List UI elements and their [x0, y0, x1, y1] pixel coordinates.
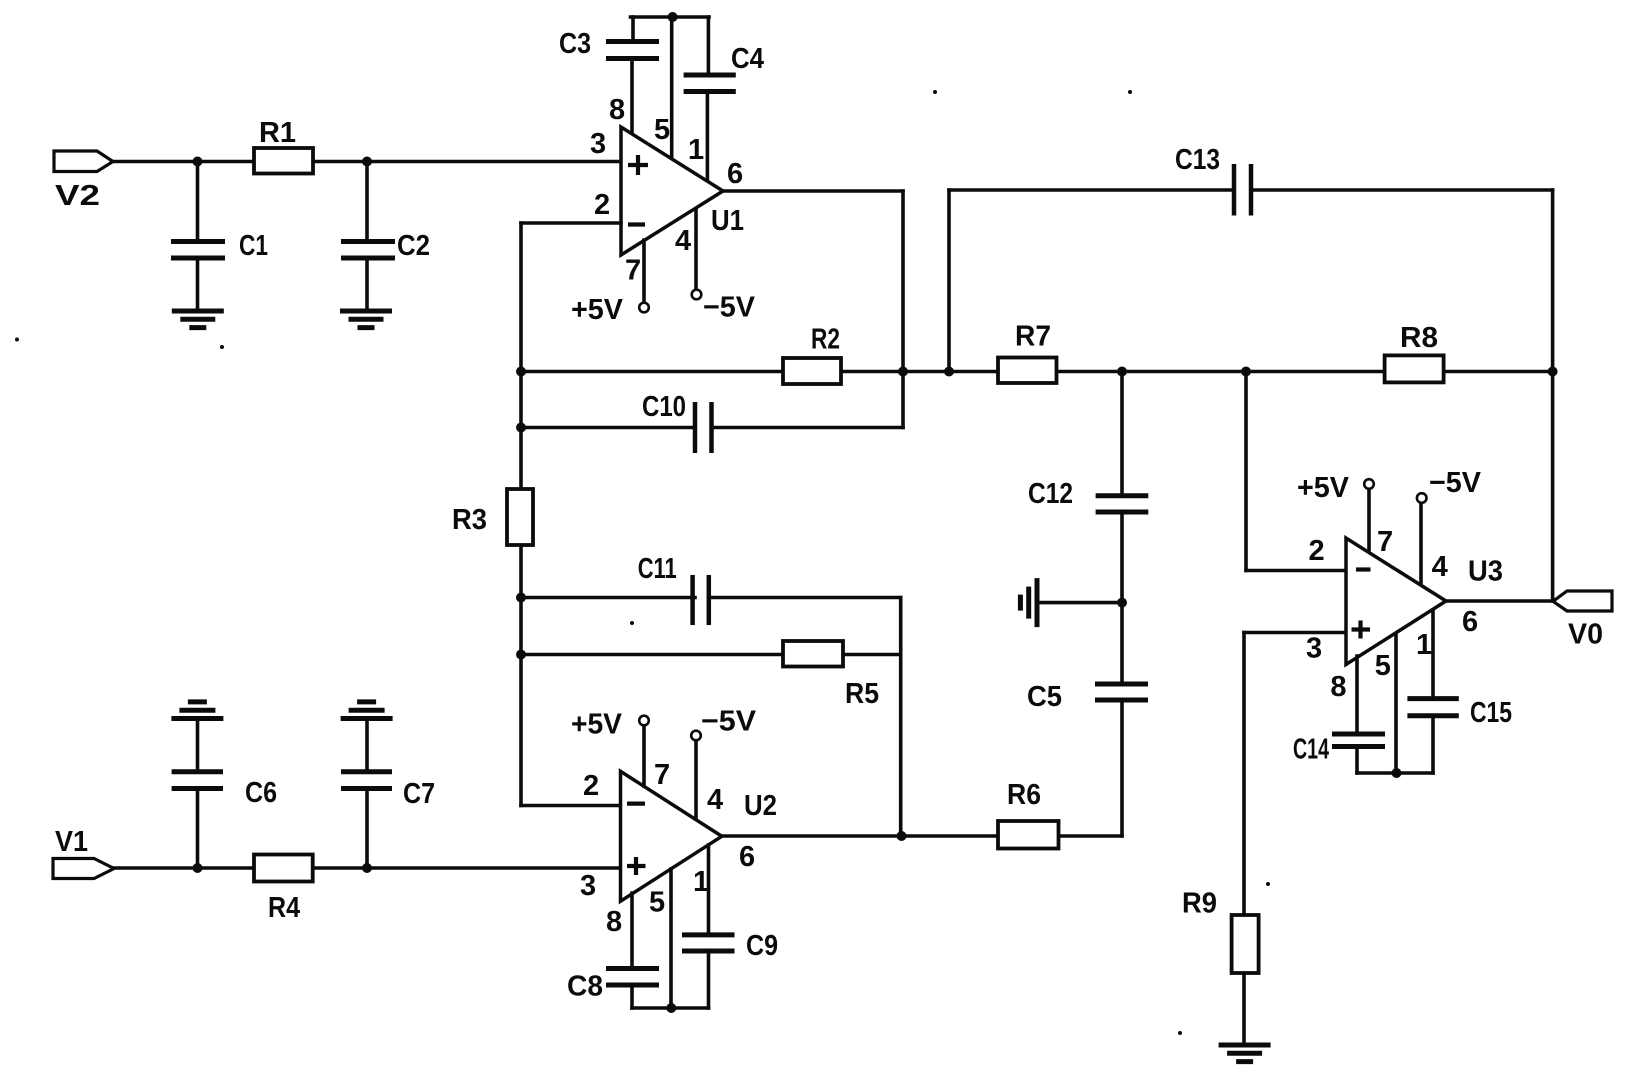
- wire U3 pin3 to R9: [1242, 633, 1246, 1043]
- wire left vertical bus: [519, 223, 523, 806]
- capacitor C9: [682, 935, 735, 951]
- wire C3 top link: [631, 17, 635, 40]
- svg-text:6: 6: [739, 841, 755, 873]
- op-amp U1: [621, 127, 723, 255]
- wire C8 down: [630, 985, 634, 1008]
- svg-text:U3: U3: [1468, 556, 1503, 588]
- svg-text:2: 2: [594, 189, 610, 221]
- wire U2 pin7 power: [642, 726, 646, 786]
- U3 plus symbol: [1352, 621, 1371, 639]
- svg-text:C15: C15: [1470, 697, 1512, 729]
- svg-text:4: 4: [707, 784, 723, 816]
- node V2-C1: [193, 157, 203, 167]
- wire U3 pin5 down: [1394, 634, 1398, 773]
- svg-text:C6: C6: [245, 777, 277, 809]
- node R4-C7: [362, 863, 372, 873]
- svg-text:2: 2: [583, 770, 599, 802]
- wire U1 pin2 input: [521, 221, 621, 225]
- capacitor C13: [1234, 164, 1251, 216]
- wire C5 to R6 corner: [1120, 700, 1124, 836]
- svg-text:−5V: −5V: [1429, 467, 1482, 499]
- node R8 right: [1548, 367, 1558, 377]
- wire C13 right: [1251, 188, 1553, 192]
- node bus-C11: [516, 593, 526, 603]
- svg-text:U1: U1: [711, 205, 744, 237]
- speck: [1128, 90, 1132, 94]
- node U2 bottom bus: [666, 1003, 676, 1013]
- capacitor C2: [341, 242, 395, 259]
- node R1-C2: [362, 157, 372, 167]
- wire R5 row: [521, 653, 901, 657]
- resistor R5: [783, 641, 843, 667]
- svg-text:+5V: +5V: [571, 709, 623, 741]
- svg-text:C3: C3: [559, 28, 591, 60]
- svg-text:1: 1: [1416, 629, 1432, 661]
- node bus-R2: [516, 367, 526, 377]
- op-amp U2: [621, 771, 722, 901]
- capacitor C4: [684, 75, 736, 92]
- capacitor C10: [695, 402, 712, 453]
- node ground tap: [1117, 598, 1127, 608]
- node C13 branch: [944, 367, 954, 377]
- wire U1 pin4 power: [694, 209, 698, 291]
- node V1-C6: [193, 863, 203, 873]
- svg-text:3: 3: [1306, 633, 1322, 665]
- wire U3 pin3 input: [1244, 631, 1346, 635]
- terminal -5V U1: [692, 290, 702, 300]
- svg-text:4: 4: [675, 225, 691, 257]
- svg-text:R5: R5: [845, 678, 879, 710]
- ground under R9: [1219, 1045, 1271, 1062]
- capacitor C11: [693, 575, 709, 625]
- wire U3 pin1 to C15: [1431, 611, 1435, 699]
- wire V2 to U1 pin3: [113, 160, 621, 164]
- wire U2 pin4 power: [694, 741, 698, 820]
- terminal -5V U2: [691, 731, 701, 741]
- svg-text:2: 2: [1309, 535, 1325, 567]
- wire U2 pin5 down: [669, 869, 673, 1008]
- wire C15 down: [1431, 716, 1435, 773]
- svg-text:8: 8: [1330, 671, 1346, 703]
- svg-text:8: 8: [606, 906, 622, 938]
- input tag V2: [54, 151, 113, 172]
- resistor R1: [254, 148, 313, 174]
- wire C2 up: [365, 162, 369, 240]
- capacitor C15: [1407, 699, 1458, 716]
- node bus-R5: [516, 650, 526, 660]
- terminal -5V U3: [1417, 493, 1427, 503]
- capacitor C1: [171, 242, 225, 259]
- capacitor C7: [341, 772, 392, 789]
- wire C9 down: [707, 951, 711, 1008]
- speck: [220, 345, 224, 349]
- svg-text:C11: C11: [638, 553, 677, 585]
- node bus-C10: [516, 423, 526, 433]
- capacitor C6: [172, 772, 223, 789]
- svg-text:U2: U2: [744, 790, 777, 822]
- svg-text:V1: V1: [55, 826, 88, 858]
- wire C4 to U1 pin1: [706, 92, 710, 181]
- node C12 branch: [1117, 367, 1127, 377]
- svg-text:C2: C2: [397, 230, 430, 262]
- svg-text:6: 6: [1462, 606, 1478, 638]
- wire C12 top: [1120, 372, 1124, 494]
- U2 plus symbol: [627, 857, 646, 875]
- svg-text:C10: C10: [642, 391, 686, 423]
- ground left of C12-C5: [1020, 578, 1037, 627]
- svg-text:7: 7: [654, 759, 670, 791]
- svg-text:R6: R6: [1007, 779, 1041, 811]
- U1 minus symbol: [628, 222, 645, 226]
- capacitor C8: [606, 969, 659, 986]
- svg-text:C8: C8: [567, 971, 603, 1003]
- svg-text:C5: C5: [1027, 681, 1062, 713]
- wire C7 down: [365, 789, 369, 869]
- wire U1 output: [723, 189, 903, 193]
- wire U3 pin8 to C14: [1355, 656, 1359, 732]
- wire C1 up: [196, 162, 200, 240]
- wire U3 pin2 down: [1244, 372, 1248, 571]
- wire U2 pin2 input: [521, 804, 621, 808]
- svg-text:5: 5: [1375, 650, 1391, 682]
- wire U2 pin1 to C9: [707, 845, 711, 933]
- svg-text:C12: C12: [1028, 478, 1073, 510]
- svg-text:6: 6: [727, 158, 743, 190]
- ground under C2: [340, 311, 392, 328]
- svg-text:+5V: +5V: [571, 294, 624, 326]
- wire U1 top bus: [631, 15, 710, 19]
- speck: [630, 621, 634, 625]
- wire U3 pin7 power: [1367, 490, 1371, 552]
- capacitor C12: [1096, 496, 1149, 512]
- wire C11 left: [521, 596, 695, 600]
- svg-text:8: 8: [609, 94, 625, 126]
- capacitor C14: [1332, 734, 1385, 747]
- U2 minus symbol: [627, 801, 645, 805]
- wire C10 left: [521, 426, 695, 430]
- resistor R8: [1385, 355, 1444, 382]
- resistor R9: [1232, 915, 1259, 973]
- wire C11-R5 vertical: [899, 598, 903, 837]
- svg-text:−5V: −5V: [701, 706, 757, 738]
- wire ground to C7: [365, 719, 369, 770]
- svg-text:5: 5: [649, 887, 665, 919]
- svg-text:R3: R3: [452, 504, 487, 536]
- wire U2 output to R6 corner: [722, 834, 1122, 838]
- wire U3 bottom bus: [1357, 771, 1433, 775]
- wire C12 to C5: [1120, 512, 1124, 682]
- node U3 pin2 branch: [1241, 367, 1251, 377]
- speck: [1266, 882, 1270, 886]
- svg-text:C7: C7: [403, 778, 435, 810]
- svg-text:R9: R9: [1182, 888, 1217, 920]
- wire U2 pin8 to C8: [630, 893, 634, 966]
- svg-text:5: 5: [654, 114, 670, 146]
- ground above C6: [171, 702, 223, 719]
- svg-text:C9: C9: [746, 930, 778, 962]
- input tag V1: [53, 859, 114, 879]
- wire U3 pin4 power: [1419, 503, 1423, 584]
- terminal +5V U2: [639, 716, 649, 726]
- speck: [1178, 1031, 1182, 1035]
- svg-text:R2: R2: [811, 324, 840, 356]
- svg-text:R8: R8: [1400, 322, 1438, 354]
- svg-text:C1: C1: [239, 230, 268, 262]
- wire V1 to U2 pin3: [114, 866, 621, 870]
- svg-text:3: 3: [580, 870, 596, 902]
- resistor R3: [507, 489, 533, 545]
- wire U1 pin5: [670, 17, 674, 158]
- wire C6 down: [196, 789, 200, 869]
- svg-text:+5V: +5V: [1297, 472, 1350, 504]
- svg-text:V0: V0: [1568, 619, 1603, 651]
- svg-text:V2: V2: [55, 180, 100, 212]
- wire C11 right: [711, 596, 901, 600]
- terminal +5V U3: [1364, 479, 1374, 489]
- wire C1 to ground: [196, 258, 200, 311]
- wire C13 branch up: [947, 190, 951, 372]
- wire C14 down: [1355, 747, 1359, 774]
- speck: [933, 90, 937, 94]
- node U2 output: [897, 831, 907, 841]
- resistor R2: [783, 358, 841, 384]
- speck: [15, 338, 19, 342]
- svg-text:4: 4: [1432, 551, 1448, 583]
- output tag V0: [1553, 591, 1612, 611]
- wire ground to C6: [196, 719, 200, 770]
- wire U3 output: [1446, 599, 1553, 603]
- wire C10 right: [712, 426, 904, 430]
- resistor R4: [254, 855, 313, 882]
- resistor R6: [998, 821, 1059, 849]
- svg-text:3: 3: [590, 128, 606, 160]
- wire ground tap: [1039, 601, 1122, 605]
- op-amp U3: [1346, 538, 1446, 665]
- capacitor C5: [1095, 684, 1148, 700]
- wire C3 to U1 pin8: [630, 59, 634, 135]
- ground above C7: [341, 702, 393, 719]
- node U3 bottom bus: [1392, 768, 1402, 778]
- wire U1 pin7 power: [642, 240, 646, 303]
- svg-text:1: 1: [688, 134, 704, 166]
- svg-text:C4: C4: [731, 43, 764, 75]
- U1 plus symbol: [628, 155, 648, 175]
- svg-text:−5V: −5V: [703, 292, 756, 324]
- wire U3 pin2 input: [1246, 569, 1346, 573]
- wire output down: [901, 191, 905, 428]
- svg-text:7: 7: [625, 255, 641, 287]
- terminal +5V U1: [639, 303, 649, 313]
- wire C2 to ground: [365, 258, 369, 311]
- node top bus pin5: [668, 12, 678, 22]
- svg-text:C14: C14: [1293, 734, 1329, 766]
- U3 minus symbol: [1356, 567, 1371, 571]
- wire R7 R8 row: [903, 370, 1553, 374]
- svg-text:C13: C13: [1175, 144, 1220, 176]
- capacitor C3: [606, 42, 659, 59]
- svg-text:R7: R7: [1015, 321, 1051, 353]
- wire C4 top link: [707, 17, 711, 73]
- svg-text:R4: R4: [268, 892, 300, 924]
- svg-text:R1: R1: [259, 117, 296, 149]
- wire U2 bottom bus: [632, 1006, 709, 1010]
- wire R2 feedback: [521, 370, 903, 374]
- wire C13 to output vertical: [1551, 190, 1555, 601]
- svg-text:7: 7: [1377, 526, 1393, 558]
- resistor R7: [998, 358, 1057, 384]
- wire C13 left: [949, 188, 1234, 192]
- ground under C1: [172, 311, 224, 328]
- node R2 right: [898, 367, 908, 377]
